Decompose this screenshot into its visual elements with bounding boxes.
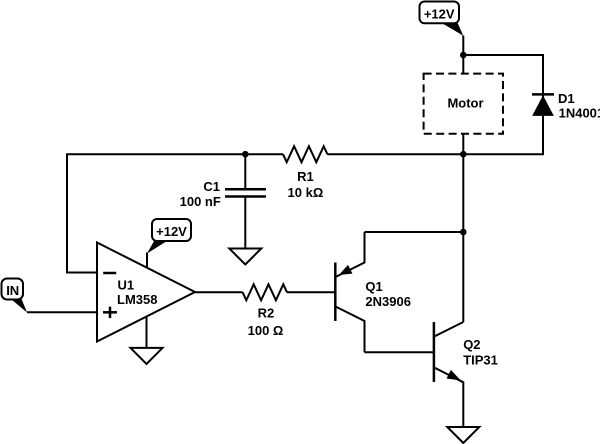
capacitor C1 top lead [244,154,246,189]
resistor R2 [243,284,287,300]
node junction dot +12V top [460,52,467,59]
IN input callout [2,279,28,313]
svg-text:IN: IN [6,283,19,298]
svg-text:U1: U1 [118,278,135,293]
transistor Q2 collector [434,322,463,337]
svg-text:100 nF: 100 nF [180,194,221,209]
node junction dot C1/R1 [242,151,249,158]
svg-text:C1: C1 [203,179,220,194]
svg-text:Q1: Q1 [365,279,382,294]
svg-text:R1: R1 [297,169,314,184]
wire top net right segment to diode branch [327,55,543,154]
svg-text:D1: D1 [558,91,575,106]
diode D1 cathode bar [532,93,554,96]
wire R2 to Q1 base [287,291,334,293]
svg-text:10 kΩ: 10 kΩ [288,185,324,200]
ground below C1 [229,249,261,265]
svg-text:2N3906: 2N3906 [365,294,411,309]
wire op-amp V- to ground [146,317,148,348]
wire op-amp output [195,291,243,293]
op-amp plus sign [103,311,117,314]
node junction dot Q1 emitter / Q2 collector [460,229,467,236]
ground below op-amp [131,348,163,364]
svg-text:1N4001: 1N4001 [559,106,600,121]
ground below Q2 [447,427,479,443]
transistor Q1 emitter arrow [340,266,352,275]
op-amp U1 [97,243,195,342]
wire top net left segment [66,153,283,155]
+12V supply callout top right [420,2,464,36]
capacitor C1 bottom lead [244,197,246,249]
wire op-amp V+ [146,253,148,269]
wire Q1 emitter to +12V net [365,231,464,233]
wire Q1 collector to Q2 base [365,351,434,353]
transistor Q2 emitter [434,368,463,428]
op-amp minus sign [103,272,116,275]
wire +12V supply drop [462,36,464,74]
svg-text:R2: R2 [258,306,275,321]
transistor Q2 emitter arrow [447,371,459,380]
svg-text:100 Ω: 100 Ω [248,323,284,338]
resistor R1 [283,146,327,162]
transistor Q1 collector [336,307,365,353]
svg-text:+12V: +12V [156,224,187,239]
wire motor bottom to Q2 collector [462,134,464,322]
node junction dot motor bottom [460,151,467,158]
svg-text:+12V: +12V [424,6,455,21]
transistor Q1 emitter [336,232,365,277]
transistor Q1 base bar [334,263,337,322]
capacitor C1 plates [225,188,266,191]
svg-text:LM358: LM358 [117,292,157,307]
svg-text:TIP31: TIP31 [463,353,498,368]
transistor Q2 base bar [433,322,436,382]
motor dashed box [424,74,503,134]
svg-text:Q2: Q2 [463,337,480,352]
svg-text:Motor: Motor [447,95,483,110]
diode D1 triangle [533,96,553,115]
wire feedback from op-amp inverting input up to top net [67,154,97,272]
wire IN to op-amp non-inverting input [27,311,97,313]
+12V supply callout above op-amp [147,219,191,254]
